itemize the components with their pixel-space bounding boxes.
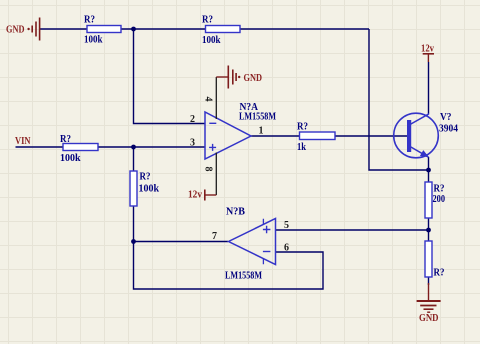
- wire mid vertical: [133, 147, 135, 242]
- svg-text:5: 5: [284, 220, 289, 231]
- svg-text:8: 8: [203, 167, 214, 172]
- svg-text:2: 2: [190, 114, 195, 125]
- svg-text:LM1558M: LM1558M: [239, 112, 276, 123]
- wire right drop to emitter node: [369, 29, 429, 170]
- svg-text:100k: 100k: [84, 35, 103, 46]
- junction node top: [131, 27, 136, 32]
- junction node pin7: [131, 239, 136, 244]
- power 12v at pin 8: [188, 190, 216, 201]
- svg-text:12v: 12v: [188, 190, 203, 201]
- svg-text:6: 6: [284, 243, 289, 254]
- wire op-amp A output to transistor base: [251, 135, 407, 137]
- svg-text:N?B: N?B: [226, 207, 245, 218]
- op-amp U1B LM1558M: [225, 207, 276, 282]
- wire from top junction down to op-amp pin 2: [134, 29, 206, 124]
- op-amp U1A LM1558M: [205, 102, 276, 159]
- svg-text:7: 7: [212, 231, 217, 242]
- svg-text:200: 200: [433, 194, 446, 205]
- svg-text:GND: GND: [6, 25, 25, 36]
- svg-text:100k: 100k: [202, 35, 221, 46]
- svg-text:R?: R?: [84, 15, 95, 26]
- svg-text:R?: R?: [140, 172, 151, 183]
- svg-text:1: 1: [259, 126, 264, 137]
- resistor R6 200: [425, 182, 445, 218]
- wire top rail: [40, 28, 369, 30]
- power ground GND top-left: [6, 18, 40, 41]
- wire 12v to collector: [428, 62, 430, 114]
- power ground at pin 4: [216, 66, 262, 89]
- svg-text:1k: 1k: [297, 142, 306, 153]
- resistor R1 100k (top left): [84, 15, 121, 46]
- svg-text:R?: R?: [202, 15, 213, 26]
- svg-text:GND: GND: [244, 73, 263, 84]
- svg-text:12v: 12v: [421, 44, 435, 55]
- junction node pin5: [426, 228, 431, 233]
- svg-text:100k: 100k: [139, 184, 160, 195]
- wire pin 5 to right rail: [276, 229, 429, 231]
- svg-text:VIN: VIN: [15, 136, 31, 147]
- power 12v top right: [421, 44, 435, 63]
- transistor V? 3904: [394, 112, 459, 158]
- junction node emitter: [426, 168, 431, 173]
- svg-text:100k: 100k: [60, 153, 81, 164]
- resistor R5 1k: [297, 122, 335, 154]
- svg-text:R?: R?: [434, 184, 445, 195]
- wire VIN to op-amp pin 3: [16, 146, 206, 148]
- svg-text:4: 4: [203, 97, 214, 102]
- svg-text:GND: GND: [419, 313, 439, 324]
- svg-text:3904: 3904: [439, 124, 459, 135]
- resistor R4 100k (vertical mid): [130, 171, 159, 206]
- svg-text:V?: V?: [440, 112, 452, 123]
- pin 4 (power, up): [215, 77, 217, 119]
- resistor R2 100k (top right): [202, 15, 240, 47]
- svg-text:R?: R?: [60, 134, 71, 145]
- wire feedback loop to pin 6: [134, 242, 324, 290]
- svg-text:LM1558M: LM1558M: [225, 271, 262, 282]
- resistor R7: [425, 241, 445, 279]
- wire emitter down right rail to ground: [428, 157, 430, 285]
- svg-text:3: 3: [190, 138, 195, 149]
- junction node VIN: [131, 145, 136, 150]
- resistor R3 100k (VIN series): [60, 134, 98, 164]
- earth ground bottom right: [417, 283, 441, 324]
- svg-text:R?: R?: [434, 268, 445, 279]
- svg-text:R?: R?: [297, 122, 308, 133]
- wire to pin 7: [134, 241, 229, 243]
- pin 8 (power, down): [215, 153, 217, 196]
